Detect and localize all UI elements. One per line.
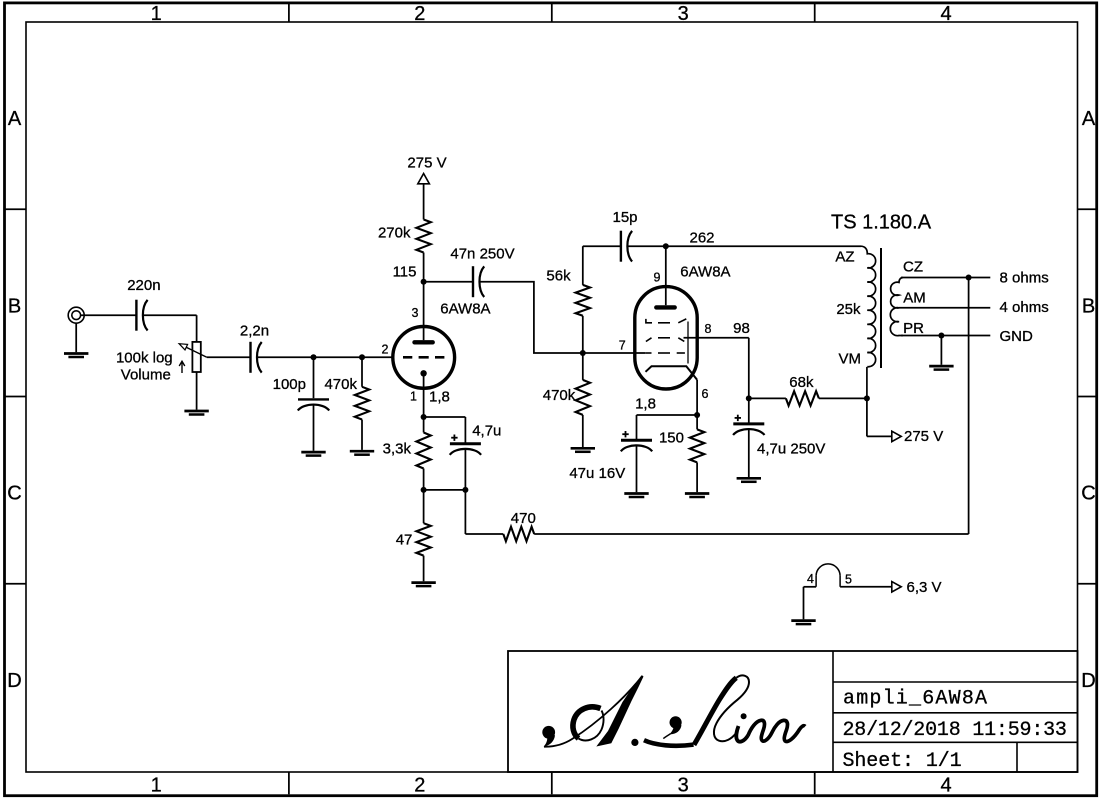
svg-text:47n 250V: 47n 250V bbox=[450, 246, 514, 263]
pin 7 bbox=[583, 339, 646, 353]
resistor 470 bbox=[465, 278, 968, 542]
cathode bbox=[646, 366, 698, 380]
wire bbox=[207, 356, 251, 358]
wire CZ 8 ohms bbox=[901, 269, 1049, 286]
svg-text:4,7u 250V: 4,7u 250V bbox=[757, 440, 825, 457]
wire bbox=[748, 338, 750, 399]
svg-text:3,3k: 3,3k bbox=[383, 440, 412, 457]
svg-text:68k: 68k bbox=[789, 374, 814, 391]
svg-text:AM: AM bbox=[903, 290, 926, 307]
svg-text:220n: 220n bbox=[127, 277, 160, 294]
suppressor grid g3 bbox=[646, 319, 688, 364]
resistor 150 bbox=[659, 415, 704, 492]
svg-text:4 ohms: 4 ohms bbox=[1000, 299, 1049, 316]
svg-text:1: 1 bbox=[410, 390, 417, 404]
title text ampli_6AW8A bbox=[843, 688, 988, 711]
node 262 bbox=[663, 230, 715, 250]
svg-text:1: 1 bbox=[151, 775, 162, 797]
svg-text:15p: 15p bbox=[612, 209, 637, 226]
svg-text:6,3 V: 6,3 V bbox=[907, 579, 942, 596]
node 115 bbox=[393, 264, 427, 285]
node bbox=[311, 354, 317, 360]
svg-text:Volume: Volume bbox=[121, 367, 171, 384]
node bbox=[421, 414, 427, 420]
svg-text:3: 3 bbox=[678, 3, 689, 25]
node bbox=[694, 412, 700, 418]
ground bbox=[685, 494, 709, 498]
ground bbox=[411, 583, 435, 587]
pentode U1b 6AW8A bbox=[635, 264, 731, 390]
svg-text:470: 470 bbox=[511, 510, 536, 527]
node bbox=[966, 275, 972, 281]
svg-text:A: A bbox=[1082, 108, 1096, 130]
node bbox=[462, 487, 468, 493]
wire bbox=[143, 315, 197, 342]
svg-text:2: 2 bbox=[414, 3, 425, 25]
svg-text:270k: 270k bbox=[378, 225, 411, 242]
svg-text:4,7u: 4,7u bbox=[472, 423, 501, 440]
triode U1a 6AW8A bbox=[393, 301, 491, 389]
svg-text:VM: VM bbox=[839, 351, 862, 368]
svg-text:47: 47 bbox=[396, 532, 413, 549]
power 275 V bbox=[867, 398, 943, 445]
wire bbox=[424, 489, 466, 491]
svg-text:100p: 100p bbox=[273, 376, 306, 393]
ground bbox=[350, 451, 374, 455]
node bbox=[864, 395, 870, 401]
svg-text:262: 262 bbox=[689, 230, 714, 247]
resistor 470k bbox=[324, 357, 369, 450]
wire bbox=[666, 245, 861, 247]
node bbox=[359, 354, 365, 360]
svg-text:A: A bbox=[8, 108, 22, 130]
svg-text:3: 3 bbox=[678, 775, 689, 797]
wire bbox=[81, 314, 137, 316]
svg-text:150: 150 bbox=[659, 430, 684, 447]
title date 28/12/2018 11:59:33 bbox=[843, 719, 1067, 742]
svg-text:1: 1 bbox=[151, 3, 162, 25]
svg-text:3: 3 bbox=[411, 306, 418, 320]
signature A.Sim bbox=[542, 675, 805, 746]
resistor 3,3k bbox=[383, 417, 431, 490]
svg-text:4: 4 bbox=[807, 572, 814, 586]
pin 6 bbox=[697, 380, 708, 415]
transformer TS 1.180.A primary bbox=[831, 211, 932, 398]
node bbox=[938, 333, 944, 339]
resistor 470k bbox=[543, 353, 590, 447]
capacitor 4,7u 250V bbox=[733, 398, 825, 477]
svg-text:9: 9 bbox=[654, 271, 661, 285]
pin 2 label bbox=[382, 342, 389, 356]
capacitor 220n bbox=[127, 277, 160, 331]
heater pins 4-5 bbox=[804, 564, 892, 587]
node bbox=[746, 395, 752, 401]
power 6,3 V bbox=[892, 579, 942, 596]
svg-text:PR: PR bbox=[903, 320, 924, 337]
wire bbox=[257, 356, 393, 358]
resistor 68k bbox=[749, 374, 867, 406]
resistor 56k bbox=[546, 246, 590, 353]
anode plate bbox=[415, 340, 433, 344]
node bbox=[580, 350, 586, 356]
ground bbox=[737, 478, 761, 482]
svg-text:56k: 56k bbox=[546, 268, 571, 285]
wire bbox=[627, 245, 666, 247]
svg-text:100k log: 100k log bbox=[116, 350, 173, 367]
svg-text:D: D bbox=[1081, 670, 1095, 692]
capacitor 47n 250V bbox=[450, 246, 514, 298]
pin 1 bbox=[410, 373, 450, 417]
transformer core bbox=[880, 248, 882, 368]
svg-text:6: 6 bbox=[702, 387, 709, 401]
svg-text:275 V: 275 V bbox=[904, 428, 943, 445]
wire PR GND bbox=[901, 328, 1033, 345]
svg-text:4: 4 bbox=[941, 3, 952, 25]
svg-text:2: 2 bbox=[414, 775, 425, 797]
wire AM 4 ohms bbox=[899, 299, 1049, 316]
cathode bbox=[420, 370, 426, 376]
capacitor 47u 16V bbox=[569, 431, 652, 492]
svg-text:4: 4 bbox=[941, 775, 952, 797]
ground bbox=[929, 336, 953, 370]
ground bbox=[791, 587, 815, 624]
grid dashes bbox=[403, 356, 444, 359]
svg-text:D: D bbox=[7, 670, 21, 692]
svg-text:1,8: 1,8 bbox=[635, 396, 656, 413]
svg-text:6AW8A: 6AW8A bbox=[440, 301, 490, 318]
svg-text:7: 7 bbox=[619, 339, 626, 353]
potentiometer 100k log Volume bbox=[116, 342, 207, 384]
resistor 270k bbox=[378, 184, 431, 282]
resistor 47 bbox=[396, 490, 431, 581]
wire bbox=[635, 396, 697, 441]
svg-text:5: 5 bbox=[845, 573, 852, 587]
svg-text:1,8: 1,8 bbox=[429, 389, 450, 406]
svg-text:B: B bbox=[8, 296, 21, 318]
title block bbox=[508, 651, 1078, 772]
wire bbox=[424, 281, 473, 283]
svg-text:TS 1.180.A: TS 1.180.A bbox=[831, 211, 932, 233]
svg-text:470k: 470k bbox=[324, 376, 357, 393]
pin 3 bbox=[411, 282, 423, 341]
wire bbox=[479, 282, 582, 353]
svg-text:115: 115 bbox=[393, 264, 417, 281]
svg-text:6AW8A: 6AW8A bbox=[680, 264, 730, 281]
svg-text:GND: GND bbox=[1000, 328, 1034, 345]
pin 8 bbox=[684, 320, 750, 338]
svg-text:275 V: 275 V bbox=[407, 155, 446, 172]
svg-text:B: B bbox=[1082, 296, 1095, 318]
transformer secondary bbox=[890, 259, 925, 338]
capacitor 100p bbox=[273, 357, 330, 451]
ground bbox=[624, 494, 648, 498]
wire bbox=[583, 245, 621, 247]
pin 9 bbox=[654, 246, 666, 305]
svg-text:AZ: AZ bbox=[835, 249, 854, 266]
svg-text:ampli_6AW8A: ampli_6AW8A bbox=[843, 688, 988, 711]
input jack J1 bbox=[68, 307, 84, 323]
svg-text:98: 98 bbox=[733, 320, 750, 337]
capacitor 4,7u bbox=[424, 417, 502, 490]
capacitor 2,2n bbox=[240, 323, 269, 373]
ground bbox=[301, 452, 325, 456]
svg-text:8: 8 bbox=[705, 322, 712, 336]
svg-text:25k: 25k bbox=[836, 301, 861, 318]
anode plate bbox=[656, 305, 674, 309]
ground bbox=[64, 323, 88, 357]
svg-text:CZ: CZ bbox=[903, 259, 923, 276]
svg-text:47u 16V: 47u 16V bbox=[569, 465, 625, 482]
svg-text:Sheet: 1/1: Sheet: 1/1 bbox=[843, 750, 962, 773]
svg-text:2: 2 bbox=[382, 342, 389, 356]
svg-text:2,2n: 2,2n bbox=[240, 323, 269, 340]
svg-text:C: C bbox=[1081, 483, 1095, 505]
svg-text:C: C bbox=[7, 483, 21, 505]
svg-text:470k: 470k bbox=[543, 387, 576, 404]
svg-text:28/12/2018 11:59:33: 28/12/2018 11:59:33 bbox=[843, 719, 1067, 742]
capacitor 15p bbox=[612, 209, 637, 262]
svg-text:8 ohms: 8 ohms bbox=[1000, 269, 1049, 286]
power 275 V bbox=[407, 155, 446, 184]
control grid g1 bbox=[645, 352, 685, 354]
ground bbox=[184, 372, 208, 415]
title sheet 1/1 bbox=[843, 750, 962, 773]
node bbox=[421, 487, 427, 493]
ground bbox=[571, 448, 595, 452]
screen grid g2 bbox=[646, 338, 684, 342]
